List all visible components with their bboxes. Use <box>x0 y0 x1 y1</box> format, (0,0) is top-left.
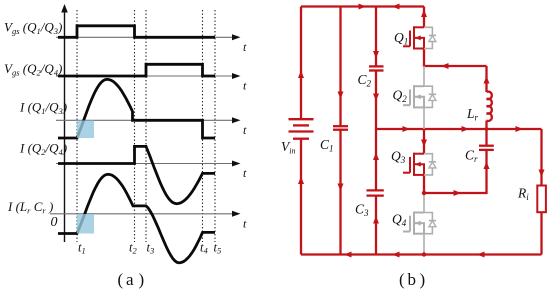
current arrow bottom bus 3 <box>477 252 485 258</box>
svg-text:t3: t3 <box>147 241 155 256</box>
wire C1 branch <box>339 7 341 127</box>
wire C2 branch <box>375 7 377 67</box>
current arrow mid bus 3 <box>516 126 524 132</box>
transistor Q3 <box>403 153 424 176</box>
transistor Q1 <box>403 26 424 49</box>
current arrow Lr branch <box>484 76 490 84</box>
svg-text:I (Lr Cr ): I (Lr Cr ) <box>7 199 53 216</box>
wire bottom bus <box>301 253 542 255</box>
wire top bus <box>301 5 424 7</box>
gray wire Q1 source to Q2 drain <box>423 66 425 86</box>
time axes rows 1-5 <box>50 37 235 214</box>
svg-text:Q1: Q1 <box>394 30 408 47</box>
svg-text:Ri: Ri <box>517 186 529 203</box>
wire Q1 drain to top bus <box>423 7 425 28</box>
node Lr / mid bus junction <box>485 127 489 131</box>
wire Ri branch <box>540 129 542 186</box>
svg-text:(: ( <box>118 270 124 289</box>
svg-text:t: t <box>243 166 247 180</box>
wire Lr branch <box>485 66 487 92</box>
current arrow Q3 drain wire <box>421 140 427 148</box>
waveform shaded region row5 <box>77 214 94 234</box>
svg-text:Q2: Q2 <box>393 88 408 105</box>
svg-text:t: t <box>243 79 247 93</box>
svg-text:Q3: Q3 <box>391 149 406 166</box>
node Q3 source junction <box>422 191 426 195</box>
svg-text:I (Q1/Q3): I (Q1/Q3) <box>19 100 67 117</box>
svg-text:C3: C3 <box>355 202 369 219</box>
resistor Ri <box>537 186 546 213</box>
transistor Q2 <box>403 85 424 108</box>
current arrow Q3 source wire <box>454 190 462 196</box>
wire Cr top to mid bus <box>485 129 487 146</box>
wire mid bus to Q3 drain <box>423 129 425 154</box>
wire C3 branch <box>375 129 377 190</box>
waveform I(Q1/Q3) <box>58 79 215 138</box>
capacitor Cr <box>479 146 494 150</box>
wire Q3 source node to Cr <box>424 150 487 193</box>
current arrow C3 branch lower <box>373 216 379 224</box>
waveform I(Q2/Q4) <box>58 146 215 203</box>
svg-text:a: a <box>126 270 134 289</box>
waveform Vgs(Q2/Q4) <box>58 64 215 76</box>
current arrow mid bus 2 <box>462 126 470 132</box>
current arrow C1 branch lower <box>338 184 344 192</box>
svg-text:I (Q2/Q4): I (Q2/Q4) <box>19 141 67 158</box>
current arrow C3 branch upper <box>373 153 379 161</box>
inductor Lr <box>487 92 492 121</box>
svg-text:t: t <box>243 216 247 230</box>
current arrow Q1 drain wire <box>421 10 427 18</box>
capacitor C3 <box>367 190 384 195</box>
current arrow Cr branch <box>484 162 490 170</box>
svg-text:t2: t2 <box>129 241 137 256</box>
waveform shaded region row3 <box>77 120 94 138</box>
svg-text:): ) <box>420 270 426 289</box>
current arrow battery branch upper <box>298 71 304 79</box>
svg-text:t: t <box>243 40 247 54</box>
current arrow C1 branch upper <box>338 92 344 100</box>
current arrow bottom bus 1 <box>344 252 352 258</box>
transistor Q4 <box>403 212 424 235</box>
current arrow C2 branch upper <box>373 51 379 59</box>
current arrow top bus right <box>359 4 367 10</box>
svg-text:(: ( <box>399 270 405 289</box>
svg-text:t: t <box>243 123 247 137</box>
svg-text:Vgs (Q2/Q4): Vgs (Q2/Q4) <box>4 61 62 78</box>
gray wire Q2 source to mid bus <box>423 107 425 129</box>
capacitor C2 <box>369 66 384 70</box>
wire battery branch <box>300 7 302 120</box>
current arrow battery branch lower <box>298 177 304 185</box>
gray wire node to Q4 drain <box>423 193 425 213</box>
gray wire Q4 source to bottom bus <box>423 234 425 255</box>
dashed time gridlines t1-t5 <box>77 10 215 242</box>
node bottom bus / Q4 junction <box>422 252 426 256</box>
svg-text:Lr: Lr <box>466 106 479 123</box>
capacitor C1 <box>333 126 348 130</box>
wire Q3 source to node <box>423 175 425 193</box>
svg-text:Q4: Q4 <box>392 212 407 229</box>
current arrow top bus left <box>392 4 400 10</box>
current arrow mid bus 1 <box>403 126 411 132</box>
svg-text:t5: t5 <box>214 241 222 256</box>
svg-text:0: 0 <box>51 215 58 230</box>
current arrow Q1 source wire <box>441 63 449 69</box>
waveform I(Lr,Cr) <box>58 174 215 262</box>
svg-text:Vgs (Q1/Q3): Vgs (Q1/Q3) <box>4 20 62 37</box>
svg-text:C1: C1 <box>320 137 334 154</box>
svg-text:): ) <box>139 270 145 289</box>
vertical axis <box>64 11 66 242</box>
svg-text:Vin: Vin <box>281 139 295 156</box>
svg-text:t1: t1 <box>78 241 86 256</box>
waveform Vgs(Q1/Q3) <box>58 26 215 38</box>
current arrow C2 branch lower <box>373 94 379 102</box>
current arrow Ri branch <box>539 170 545 178</box>
svg-text:b: b <box>408 270 417 289</box>
battery Vin <box>289 119 314 139</box>
svg-text:C2: C2 <box>358 72 372 89</box>
svg-text:Cr: Cr <box>465 148 478 165</box>
wire Q1 source to Lr <box>424 49 487 67</box>
svg-text:t4: t4 <box>200 241 208 256</box>
current arrow bottom bus 2 <box>392 252 400 258</box>
wire mid bus <box>376 128 542 130</box>
